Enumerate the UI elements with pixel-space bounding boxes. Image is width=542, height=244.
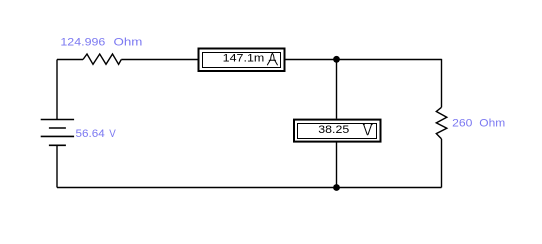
wire left vertical upper (top wire to battery) bbox=[56, 60, 58, 120]
voltmeter U2 outer box bbox=[294, 120, 381, 142]
wire node A to top-right corner bbox=[337, 59, 442, 61]
node B (bottom junction dot) bbox=[333, 184, 340, 191]
voltmeter V glyph bbox=[363, 125, 372, 135]
svg-text:260: 260 bbox=[452, 118, 472, 130]
wire voltmeter branch lower bbox=[336, 143, 338, 188]
wire voltmeter branch upper bbox=[336, 60, 338, 119]
wire right vertical lower (resistor R2 to bottom) bbox=[441, 139, 443, 188]
ammeter A glyph bbox=[267, 53, 277, 65]
resistor R2 260 Ohm (vertical zigzag) bbox=[436, 107, 447, 139]
battery long plate (+) bbox=[41, 135, 74, 137]
voltmeter U2 inner box bbox=[298, 124, 377, 139]
svg-text:38.25: 38.25 bbox=[318, 124, 349, 136]
node A (top junction dot) bbox=[333, 56, 340, 63]
wire left vertical lower (battery to bottom wire) bbox=[56, 145, 58, 187]
battery short plate (-) bbox=[49, 127, 66, 129]
battery short plate (bottom, -) bbox=[49, 144, 66, 146]
svg-text:147.1m: 147.1m bbox=[223, 53, 265, 65]
wire resistor R1 to ammeter bbox=[121, 59, 197, 61]
wire ammeter to node A bbox=[286, 59, 337, 61]
resistor R1 124.996 Ohm (horizontal zigzag) bbox=[83, 54, 121, 64]
ammeter U1 inner box bbox=[203, 53, 281, 68]
battery V1 bbox=[41, 120, 74, 146]
wire right vertical upper (to resistor R2) bbox=[441, 59, 443, 107]
wire bottom horizontal bbox=[57, 187, 442, 189]
wire top-left horizontal (battery top to resistor R1) bbox=[57, 59, 83, 61]
svg-text:56.64: 56.64 bbox=[76, 128, 105, 140]
ammeter U1 outer box bbox=[199, 49, 285, 72]
svg-text:Ohm: Ohm bbox=[479, 118, 505, 130]
svg-text:124.996: 124.996 bbox=[60, 37, 105, 49]
svg-text:V: V bbox=[109, 128, 116, 140]
svg-text:Ohm: Ohm bbox=[114, 37, 143, 49]
battery long plate (top, +) bbox=[41, 119, 74, 121]
